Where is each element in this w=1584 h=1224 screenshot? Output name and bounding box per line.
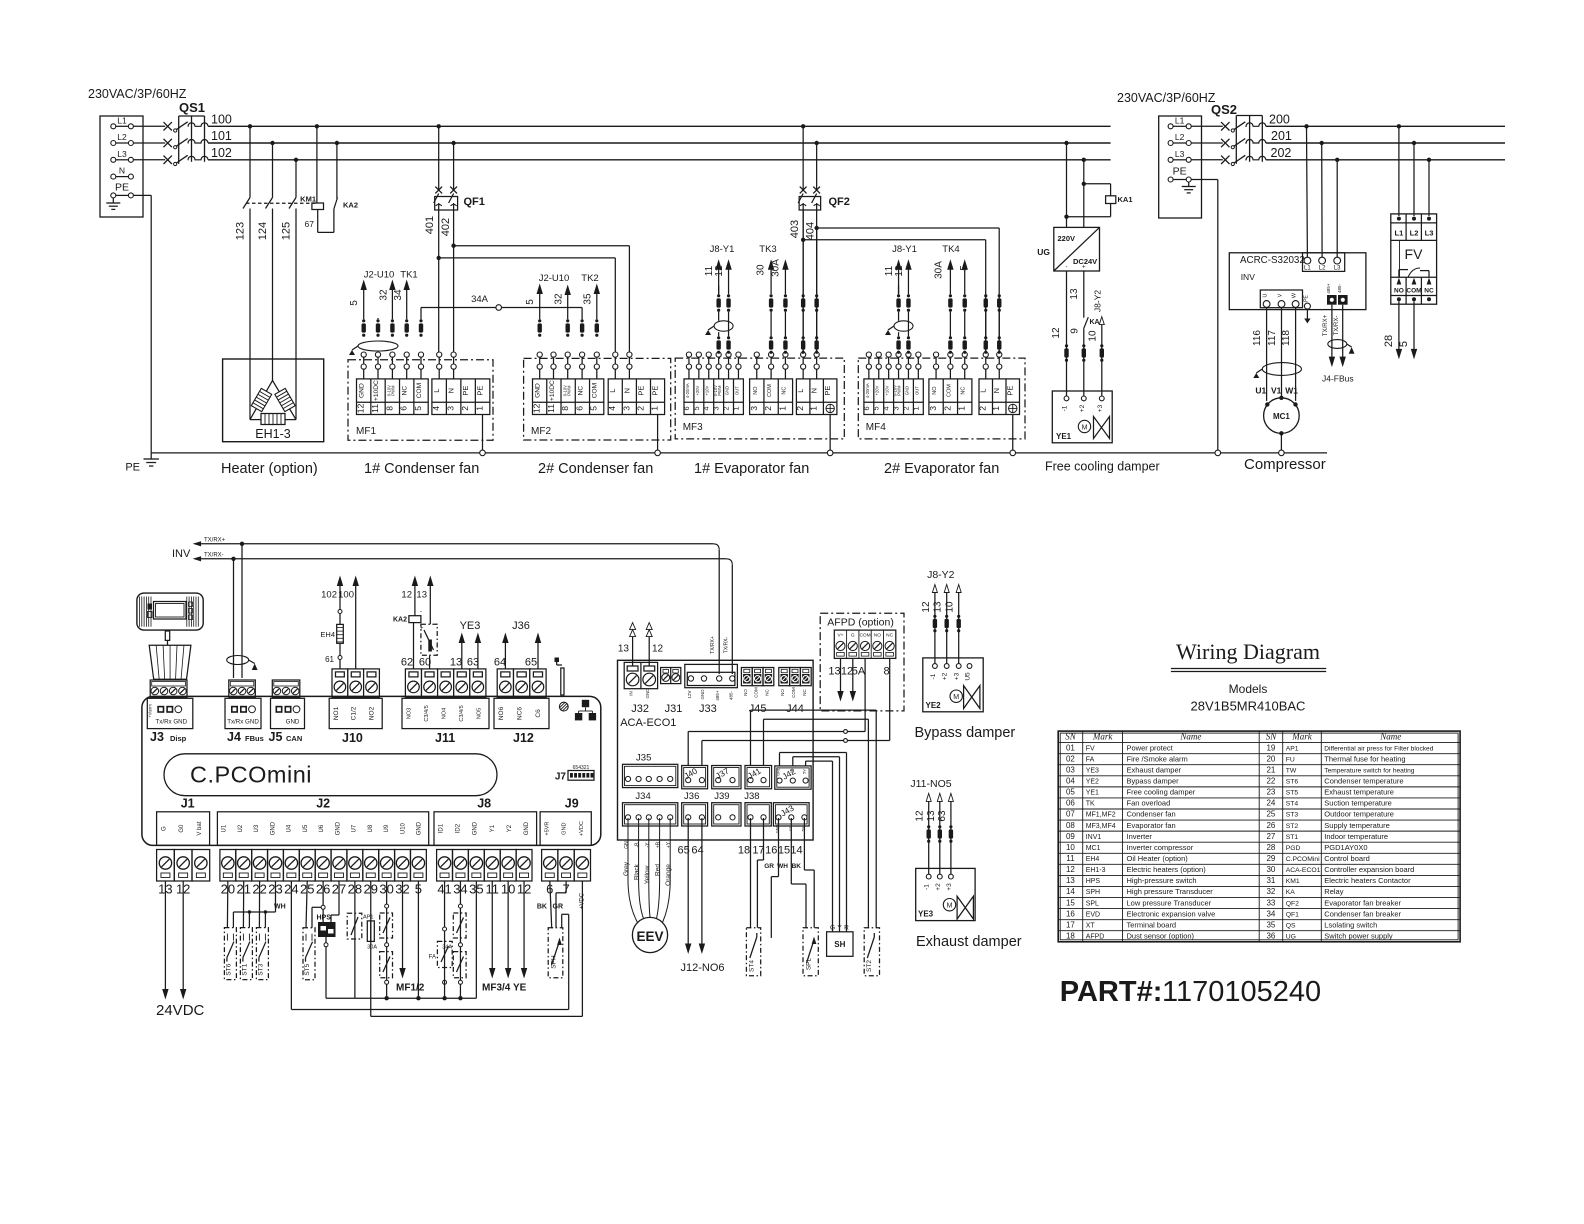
svg-text:18: 18	[738, 845, 750, 857]
MF1 shield ellipse	[358, 341, 398, 351]
svg-text:30A: 30A	[934, 261, 945, 279]
svg-text:5: 5	[525, 299, 536, 305]
MF4 circles m2	[948, 352, 953, 357]
svg-text:GND: GND	[562, 822, 568, 834]
thermistor ST2	[864, 928, 879, 976]
svg-text:MC1: MC1	[1273, 412, 1290, 421]
MF3 circles c2	[696, 352, 701, 357]
svg-text:2: 2	[795, 406, 805, 411]
terminal L1	[111, 115, 134, 129]
suppressor diode box at J11	[416, 577, 437, 669]
wire J2-27 to HPS	[331, 881, 339, 922]
MF3 circles c6	[736, 352, 741, 357]
MF3 circles c5	[726, 352, 731, 357]
svg-text:J45: J45	[749, 703, 767, 715]
svg-text:+10DC: +10DC	[549, 380, 556, 401]
wire 117	[1267, 307, 1282, 396]
svg-text:34A: 34A	[471, 294, 489, 305]
MF3 circles m2	[768, 352, 773, 357]
svg-text:N: N	[447, 388, 456, 393]
wire J2-5 to bus	[417, 881, 419, 998]
wire TX/RX+ down to J4-FBus	[1323, 305, 1335, 366]
ferrite bead	[1065, 344, 1068, 347]
svg-text:N: N	[622, 388, 631, 393]
svg-text:GND: GND	[335, 821, 341, 835]
svg-text:TX/RX+: TX/RX+	[710, 636, 716, 654]
svg-text:1: 1	[475, 406, 485, 411]
svg-text:Y1: Y1	[490, 824, 496, 832]
MF1 wire circles cell2	[375, 352, 380, 357]
svg-text:INV1: INV1	[1086, 834, 1102, 841]
wire QS2 L3 stub	[1191, 159, 1223, 161]
svg-text:12: 12	[915, 810, 926, 822]
svg-text:13: 13	[618, 644, 630, 655]
wire MF3 J8-Y1 a	[704, 261, 721, 353]
ferrite bead	[1082, 344, 1085, 347]
svg-text:J34: J34	[635, 791, 650, 802]
svg-text:17: 17	[1066, 920, 1075, 929]
svg-text:INV: INV	[172, 548, 191, 560]
svg-text:J12-NO6: J12-NO6	[681, 962, 725, 974]
svg-text:Y: Y	[837, 925, 842, 932]
svg-text:-: -	[420, 609, 422, 615]
svg-text:Electric heaters Contactor: Electric heaters Contactor	[1324, 876, 1411, 885]
svg-text:Inverter compressor: Inverter compressor	[1127, 843, 1194, 852]
svg-text:1: 1	[809, 406, 819, 411]
svg-text:+10DC: +10DC	[373, 380, 380, 401]
svg-text:PE: PE	[651, 386, 660, 396]
wires J36 to J12-NO6	[677, 818, 724, 974]
svg-text:U2: U2	[238, 824, 244, 832]
ferrite bead	[815, 336, 818, 339]
node tap wire 125 on 102	[294, 158, 298, 162]
svg-text:FA: FA	[429, 955, 436, 961]
svg-text:+10V: +10V	[705, 385, 710, 395]
svg-text:GND: GND	[777, 767, 781, 776]
svg-text:J38: J38	[744, 791, 759, 802]
svg-text:3: 3	[446, 406, 456, 411]
svg-text:NO6: NO6	[498, 706, 505, 720]
svg-text:PWM: PWM	[897, 385, 902, 396]
svg-text:BK: BK	[537, 904, 547, 911]
svg-text:TK1: TK1	[400, 270, 417, 281]
svg-text:12: 12	[894, 265, 905, 277]
MF1 L connection circles	[437, 352, 442, 357]
svg-text:J11-NO5: J11-NO5	[910, 778, 951, 790]
svg-text:5: 5	[1398, 341, 1410, 347]
J4 label box	[225, 698, 261, 728]
svg-text:Exhaust temperature: Exhaust temperature	[1324, 788, 1394, 797]
svg-text:13: 13	[828, 666, 840, 678]
wire 401 branch to MF2 L	[439, 258, 616, 352]
connector J43	[773, 803, 809, 834]
ferrite bead	[581, 319, 584, 322]
EEV wires	[628, 818, 670, 923]
wire FV L1	[1398, 126, 1400, 216]
node J4 tap on TX/RX+	[240, 542, 244, 546]
svg-text:FA: FA	[1086, 756, 1095, 763]
wire QS2 L1 stub	[1191, 125, 1223, 127]
svg-text:Terminal board: Terminal board	[1127, 920, 1177, 929]
wire MF3 J8-Y1 b	[714, 261, 731, 353]
connector J7	[555, 765, 594, 783]
svg-text:Inverter: Inverter	[1127, 832, 1153, 841]
svg-text:FBus: FBus	[245, 734, 264, 743]
EEV wire pin labels	[624, 841, 672, 849]
EEV wire color labels	[623, 861, 672, 886]
ferrite bead	[949, 294, 952, 297]
pressure switch HPS	[317, 915, 336, 938]
svg-text:13: 13	[450, 657, 462, 669]
svg-text:PWM: PWM	[717, 385, 722, 396]
svg-text:34: 34	[393, 289, 404, 301]
svg-text:1: 1	[731, 406, 740, 410]
wire J9-6 to SPH	[550, 881, 552, 928]
ferrite bead	[784, 336, 787, 339]
shield ellipse J4	[227, 656, 249, 665]
ferrite bead	[984, 294, 987, 297]
svg-text:EH4: EH4	[1086, 856, 1100, 863]
shield ellipse compressor	[1262, 363, 1301, 376]
MF3 aux strip	[750, 379, 793, 415]
wire QS2 L2 stub	[1191, 142, 1223, 144]
svg-text:16: 16	[765, 845, 777, 857]
C.PCOmini label oval	[164, 754, 497, 796]
J11 cell numbers	[401, 657, 479, 669]
svg-text:101: 101	[211, 129, 232, 143]
svg-text:8: 8	[384, 406, 394, 411]
svg-text:J10: J10	[342, 731, 363, 745]
wire QF1 pole1 from 100	[438, 126, 440, 190]
svg-text:Evaporator fan breaker: Evaporator fan breaker	[1324, 898, 1401, 907]
node MF4 PE on bus	[1010, 450, 1016, 456]
svg-text:60: 60	[419, 657, 431, 669]
wire 24VDC a	[163, 881, 168, 998]
svg-text:1: 1	[957, 406, 967, 411]
svg-text:FU: FU	[1286, 756, 1295, 763]
wire QF2 pole2 from 101	[816, 143, 818, 190]
wires J11-NO5 to exhaust damper	[910, 778, 953, 874]
wire MC1 to earth bus	[1280, 433, 1282, 450]
svg-text:Lsolating switch: Lsolating switch	[1324, 920, 1377, 929]
wire 403	[789, 210, 803, 352]
svg-text:5: 5	[872, 406, 881, 410]
svg-text:01: 01	[1066, 743, 1075, 752]
svg-text:Supply temperature: Supply temperature	[1324, 821, 1389, 830]
svg-text:Red: Red	[655, 864, 662, 876]
MF4 circles p2	[997, 352, 1002, 357]
svg-text:KA1: KA1	[1118, 195, 1133, 204]
svg-text:J8-Y1: J8-Y1	[892, 244, 917, 255]
MF4 circles c1	[866, 352, 871, 357]
wire MF4 LN bead gaps	[985, 312, 987, 353]
coil KM1	[300, 195, 323, 210]
wire J10-NO1 with EH4	[320, 577, 343, 669]
svg-text:YE3: YE3	[460, 620, 481, 632]
wire TX/RX- down to J4-FBus	[1334, 305, 1346, 366]
ACRC 485 terminals	[1326, 283, 1348, 305]
svg-text:GND: GND	[645, 688, 650, 699]
svg-text:4-20mA: 4-20mA	[865, 383, 870, 398]
bus wire 202	[1266, 159, 1505, 161]
wire 403 to MF3 L gap fill	[802, 210, 804, 240]
svg-text:YE1: YE1	[1086, 790, 1099, 797]
wire J32 12	[646, 623, 663, 666]
svg-text:AFPD (option): AFPD (option)	[827, 617, 894, 629]
svg-text:ST6: ST6	[225, 963, 232, 975]
svg-text:Exhaust damper: Exhaust damper	[1127, 765, 1182, 774]
thermistor ST6	[224, 928, 236, 980]
svg-text:Grey: Grey	[623, 861, 630, 876]
circuit breaker QF1	[434, 187, 485, 210]
terminal box XT left power entry	[100, 116, 143, 217]
svg-text:28: 28	[1383, 335, 1395, 347]
MF3 control strip	[684, 379, 743, 415]
svg-text:6: 6	[574, 406, 584, 411]
svg-text:+B: +B	[656, 841, 662, 848]
bus wire 200	[1266, 125, 1505, 127]
MF4 shield ellipse	[894, 321, 913, 331]
svg-text:GND: GND	[473, 821, 479, 835]
svg-text:N: N	[810, 388, 819, 393]
svg-text:AP1: AP1	[1286, 745, 1299, 752]
svg-text:Condenser temperature: Condenser temperature	[1324, 777, 1403, 786]
svg-text:27: 27	[1266, 832, 1275, 841]
svg-text:102: 102	[211, 146, 232, 160]
svg-text:M: M	[1082, 425, 1088, 432]
svg-text:W: W	[1292, 292, 1298, 298]
svg-text:QF2: QF2	[1286, 900, 1299, 907]
svg-text:J7: J7	[555, 772, 567, 783]
svg-text:QF1: QF1	[1286, 911, 1299, 918]
MF2 wire circles cell5	[594, 352, 599, 357]
svg-text:485+: 485+	[715, 690, 720, 701]
bus wire 102	[208, 159, 1111, 161]
ferrite bead	[815, 294, 818, 297]
svg-text:Y2: Y2	[507, 824, 513, 832]
ferrite bead	[538, 319, 541, 322]
MF2 N connection circles	[627, 352, 632, 357]
svg-text:ST3: ST3	[1286, 812, 1299, 819]
wire 124 lower to heater	[272, 209, 274, 383]
svg-text:NO: NO	[780, 689, 785, 696]
svg-text:UG: UG	[1286, 933, 1296, 940]
svg-text:L2: L2	[1175, 132, 1185, 142]
svg-text:TX/RX+: TX/RX+	[204, 538, 226, 544]
svg-text:-: -	[1066, 265, 1068, 271]
wire MF1 PE to earth bus	[482, 415, 484, 451]
svg-text:35: 35	[1266, 920, 1275, 929]
svg-text:31: 31	[1266, 876, 1275, 885]
svg-text:NC6: NC6	[517, 707, 524, 720]
wire 403h vertical into MF3 L	[802, 240, 804, 294]
MF2 power strip	[608, 379, 664, 415]
svg-text:NC: NC	[961, 387, 967, 395]
terminal block MF2 2# condenser fan	[524, 358, 671, 440]
compressor MC1	[1264, 396, 1300, 436]
svg-text:ACA-ECO1: ACA-ECO1	[1286, 867, 1321, 874]
svg-text:2: 2	[901, 406, 910, 410]
svg-text:5: 5	[692, 406, 701, 410]
ferrite bead	[376, 319, 379, 322]
ferrite bead	[949, 336, 952, 339]
inverter ACRC-S32032 box	[1229, 253, 1366, 310]
power protect relay FV	[1391, 214, 1437, 304]
ACRC UVW terminal box	[1260, 290, 1302, 308]
terminal block MF3 dashed box	[675, 358, 844, 439]
svg-text:W1: W1	[1285, 386, 1298, 396]
svg-text:J33: J33	[699, 703, 717, 715]
connector J5 plug	[272, 680, 300, 697]
svg-text:11: 11	[1066, 854, 1075, 863]
temp switch TW chain at J8-34	[442, 881, 466, 1000]
wire MF1-8 to J2-U10 (32)	[379, 281, 396, 319]
J3 label box	[147, 698, 193, 728]
wire J2-21 to ST1	[242, 881, 244, 928]
node 403 branch	[801, 238, 805, 242]
MF2 L connection circles	[613, 352, 618, 357]
svg-text:13: 13	[926, 810, 937, 822]
svg-text:M: M	[953, 694, 959, 701]
svg-text:34A: 34A	[442, 945, 452, 951]
svg-text:Disp: Disp	[170, 734, 187, 743]
svg-text:485-: 485-	[1337, 283, 1342, 293]
terminal box XT right power entry	[1159, 116, 1202, 218]
svg-text:J36: J36	[512, 620, 530, 632]
svg-text:TK: TK	[1086, 801, 1095, 808]
J1 label box	[157, 812, 210, 846]
svg-text:G0: G0	[179, 824, 185, 833]
svg-text:GND: GND	[535, 383, 542, 398]
wire J4 Rx	[241, 544, 243, 678]
contactor KM1 main contacts	[243, 198, 316, 209]
circuit breaker QF2	[798, 187, 850, 210]
svg-text:09: 09	[1066, 832, 1075, 841]
svg-text:4: 4	[431, 406, 441, 411]
wire MF4 LN bead gaps	[998, 312, 1000, 353]
svg-text:J12: J12	[513, 731, 534, 745]
svg-text:J32: J32	[631, 703, 649, 715]
svg-text:TX/RX-: TX/RX-	[1334, 316, 1340, 336]
svg-text:J4-FBus: J4-FBus	[1322, 374, 1354, 384]
svg-text:654321: 654321	[573, 765, 590, 771]
display terminal PGD	[137, 593, 203, 630]
svg-text:26: 26	[1266, 821, 1275, 830]
label J5 CAN	[269, 730, 303, 744]
wires J43 to SPL	[764, 818, 814, 938]
svg-text:07: 07	[1066, 810, 1075, 819]
wire MF4 PE to earth bus	[1012, 415, 1014, 451]
wire UG feed b	[1083, 160, 1085, 228]
thermistor ST1	[240, 928, 252, 980]
svg-text:+VDC: +VDC	[579, 821, 585, 836]
terminal PE with earth	[106, 181, 133, 209]
svg-text:N: N	[119, 166, 125, 176]
PGD cable connector	[165, 631, 169, 645]
wire 404 branch to MF4 N	[817, 228, 1000, 352]
wire 125 upper	[295, 160, 297, 198]
svg-text:+20V: +20V	[875, 385, 880, 395]
ferrite bead	[984, 336, 987, 339]
svg-text:J3: J3	[150, 730, 164, 744]
connector J31	[661, 668, 681, 684]
bus wire 101	[208, 142, 1111, 144]
MF2 wire circles cell4	[580, 352, 585, 357]
svg-text:PE: PE	[1006, 386, 1015, 396]
connector J11	[405, 669, 421, 697]
bus wire 201	[1266, 142, 1505, 144]
svg-text:8: 8	[883, 666, 889, 678]
J8 numbers	[437, 882, 531, 897]
svg-text:L3: L3	[1334, 266, 1341, 272]
wire 124 upper	[272, 143, 274, 198]
svg-text:NO: NO	[874, 633, 881, 639]
svg-text:NC: NC	[802, 689, 807, 696]
svg-text:J9: J9	[565, 797, 579, 811]
ferrite bead	[727, 336, 730, 339]
connector J41	[745, 766, 772, 789]
svg-text:GND: GND	[417, 821, 423, 835]
wire J2-24 WH long	[274, 881, 569, 1010]
svg-text:100: 100	[338, 590, 354, 601]
svg-text:Condenser fan breaker: Condenser fan breaker	[1324, 909, 1401, 918]
svg-text:Bypass damper: Bypass damper	[1127, 777, 1180, 786]
ferrite bead	[998, 336, 1001, 339]
svg-text:15: 15	[778, 845, 790, 857]
svg-text:KA2: KA2	[343, 201, 358, 210]
wire MF2-12 to J2-U10 (5)	[525, 285, 542, 319]
MF4 control strip	[864, 379, 923, 415]
svg-text:64: 64	[691, 845, 703, 857]
svg-text:230VAC/3P/60HZ: 230VAC/3P/60HZ	[1117, 91, 1216, 105]
svg-text:ST1: ST1	[1286, 834, 1299, 841]
wire J2-20 to ST6	[226, 881, 228, 928]
wires J38 to ST4	[738, 818, 765, 928]
svg-text:485+: 485+	[1326, 283, 1331, 294]
svg-text:L3: L3	[1425, 229, 1434, 238]
svg-text:ST2: ST2	[866, 960, 873, 972]
svg-text:PWM: PWM	[566, 385, 571, 396]
svg-text:62: 62	[401, 657, 413, 669]
svg-text:COM: COM	[791, 687, 796, 698]
wire ACRC L3	[1336, 160, 1338, 257]
wire 401	[424, 210, 439, 352]
svg-text:Condenser fan: Condenser fan	[1127, 810, 1176, 819]
svg-text:2: 2	[460, 406, 470, 411]
svg-text:NO: NO	[743, 689, 748, 696]
svg-text:61: 61	[325, 655, 334, 664]
node QF1 pole2 on 101	[451, 141, 455, 145]
svg-text:Switch power supply: Switch power supply	[1324, 931, 1393, 940]
wire 12 to YE1	[1051, 271, 1067, 396]
svg-text:+3: +3	[1097, 404, 1104, 412]
wire MF3 PE to earth bus	[829, 415, 831, 451]
wire HPS to bus	[324, 937, 328, 998]
svg-text:L: L	[796, 389, 805, 393]
svg-text:32: 32	[379, 289, 390, 301]
relay coil KA1	[1064, 182, 1132, 219]
wire PE to earth bus	[133, 195, 151, 453]
svg-text:GND: GND	[725, 386, 730, 395]
wire 404	[805, 210, 817, 352]
expansion board ACA-ECO1 outline	[618, 660, 814, 840]
damper actuator YE3	[916, 868, 975, 920]
svg-text:J8-Y1: J8-Y1	[710, 244, 735, 255]
relay coil KA2 at J11	[393, 577, 424, 669]
wires J11 to YE3	[459, 620, 480, 669]
wire MF1-6 to TK1 (34)	[393, 281, 409, 319]
MF1 N connection circles	[451, 352, 456, 357]
